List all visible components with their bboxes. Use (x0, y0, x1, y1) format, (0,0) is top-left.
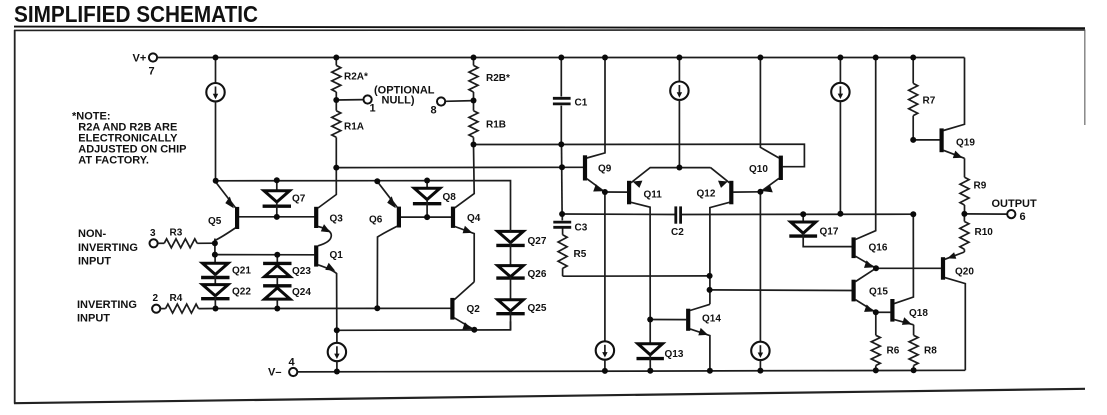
svg-text:Q21: Q21 (232, 266, 251, 277)
svg-text:3: 3 (150, 228, 156, 239)
svg-text:Q3: Q3 (330, 213, 344, 224)
svg-text:Q18: Q18 (909, 308, 928, 319)
svg-text:Q9: Q9 (598, 164, 612, 175)
svg-text:Q5: Q5 (208, 216, 222, 227)
svg-text:INVERTING: INVERTING (77, 299, 137, 311)
svg-text:Q13: Q13 (665, 349, 684, 360)
svg-text:Q25: Q25 (528, 303, 547, 314)
svg-text:R7: R7 (923, 96, 936, 107)
svg-text:INVERTING: INVERTING (78, 242, 138, 254)
svg-text:Q6: Q6 (369, 215, 383, 226)
svg-text:R4: R4 (170, 293, 183, 304)
svg-text:R2A*: R2A* (344, 72, 368, 83)
svg-text:Q7: Q7 (292, 194, 306, 205)
svg-text:Q14: Q14 (702, 314, 721, 325)
svg-text:Q23: Q23 (292, 266, 311, 277)
svg-text:NON-: NON- (78, 228, 106, 240)
svg-text:Q11: Q11 (644, 189, 663, 200)
svg-text:Q19: Q19 (956, 137, 975, 148)
svg-text:INPUT: INPUT (78, 256, 111, 268)
svg-text:C2: C2 (671, 227, 684, 238)
svg-text:Q22: Q22 (232, 287, 251, 298)
svg-text:SIMPLIFIED SCHEMATIC: SIMPLIFIED SCHEMATIC (14, 1, 258, 27)
svg-text:R2B*: R2B* (486, 73, 510, 84)
svg-text:4: 4 (289, 357, 296, 369)
svg-text:*NOTE:: *NOTE: (72, 111, 111, 123)
svg-text:2: 2 (153, 293, 159, 304)
svg-text:R1A: R1A (344, 122, 364, 133)
svg-text:V+: V+ (133, 53, 147, 65)
svg-text:V–: V– (268, 367, 281, 379)
svg-text:6: 6 (1020, 211, 1026, 223)
svg-text:R9: R9 (974, 181, 987, 192)
svg-text:Q15: Q15 (869, 287, 888, 298)
svg-text:Q4: Q4 (467, 213, 481, 224)
svg-text:Q17: Q17 (820, 227, 839, 238)
svg-text:INPUT: INPUT (77, 313, 110, 325)
svg-text:R5: R5 (574, 249, 587, 260)
svg-text:C3: C3 (575, 223, 588, 234)
svg-text:C1: C1 (575, 98, 588, 109)
svg-text:1: 1 (370, 103, 376, 115)
svg-text:Q1: Q1 (330, 250, 344, 261)
svg-text:Q8: Q8 (443, 192, 457, 203)
svg-text:R6: R6 (887, 346, 900, 357)
svg-text:R1B: R1B (486, 120, 506, 131)
svg-text:AT FACTORY.: AT FACTORY. (78, 155, 149, 167)
svg-text:Q27: Q27 (528, 236, 547, 247)
svg-text:Q2: Q2 (467, 304, 481, 315)
svg-text:Q10: Q10 (749, 164, 768, 175)
svg-text:Q26: Q26 (528, 269, 547, 280)
svg-text:R3: R3 (170, 228, 183, 239)
svg-text:Q24: Q24 (292, 287, 311, 298)
svg-text:Q16: Q16 (869, 243, 888, 254)
svg-text:Q20: Q20 (955, 267, 974, 278)
svg-text:NULL): NULL) (382, 95, 415, 107)
svg-text:8: 8 (431, 105, 437, 117)
svg-text:7: 7 (149, 66, 155, 78)
svg-text:Q12: Q12 (697, 189, 716, 200)
svg-text:OUTPUT: OUTPUT (992, 198, 1038, 210)
svg-text:R8: R8 (924, 346, 937, 357)
svg-text:R10: R10 (975, 227, 994, 238)
